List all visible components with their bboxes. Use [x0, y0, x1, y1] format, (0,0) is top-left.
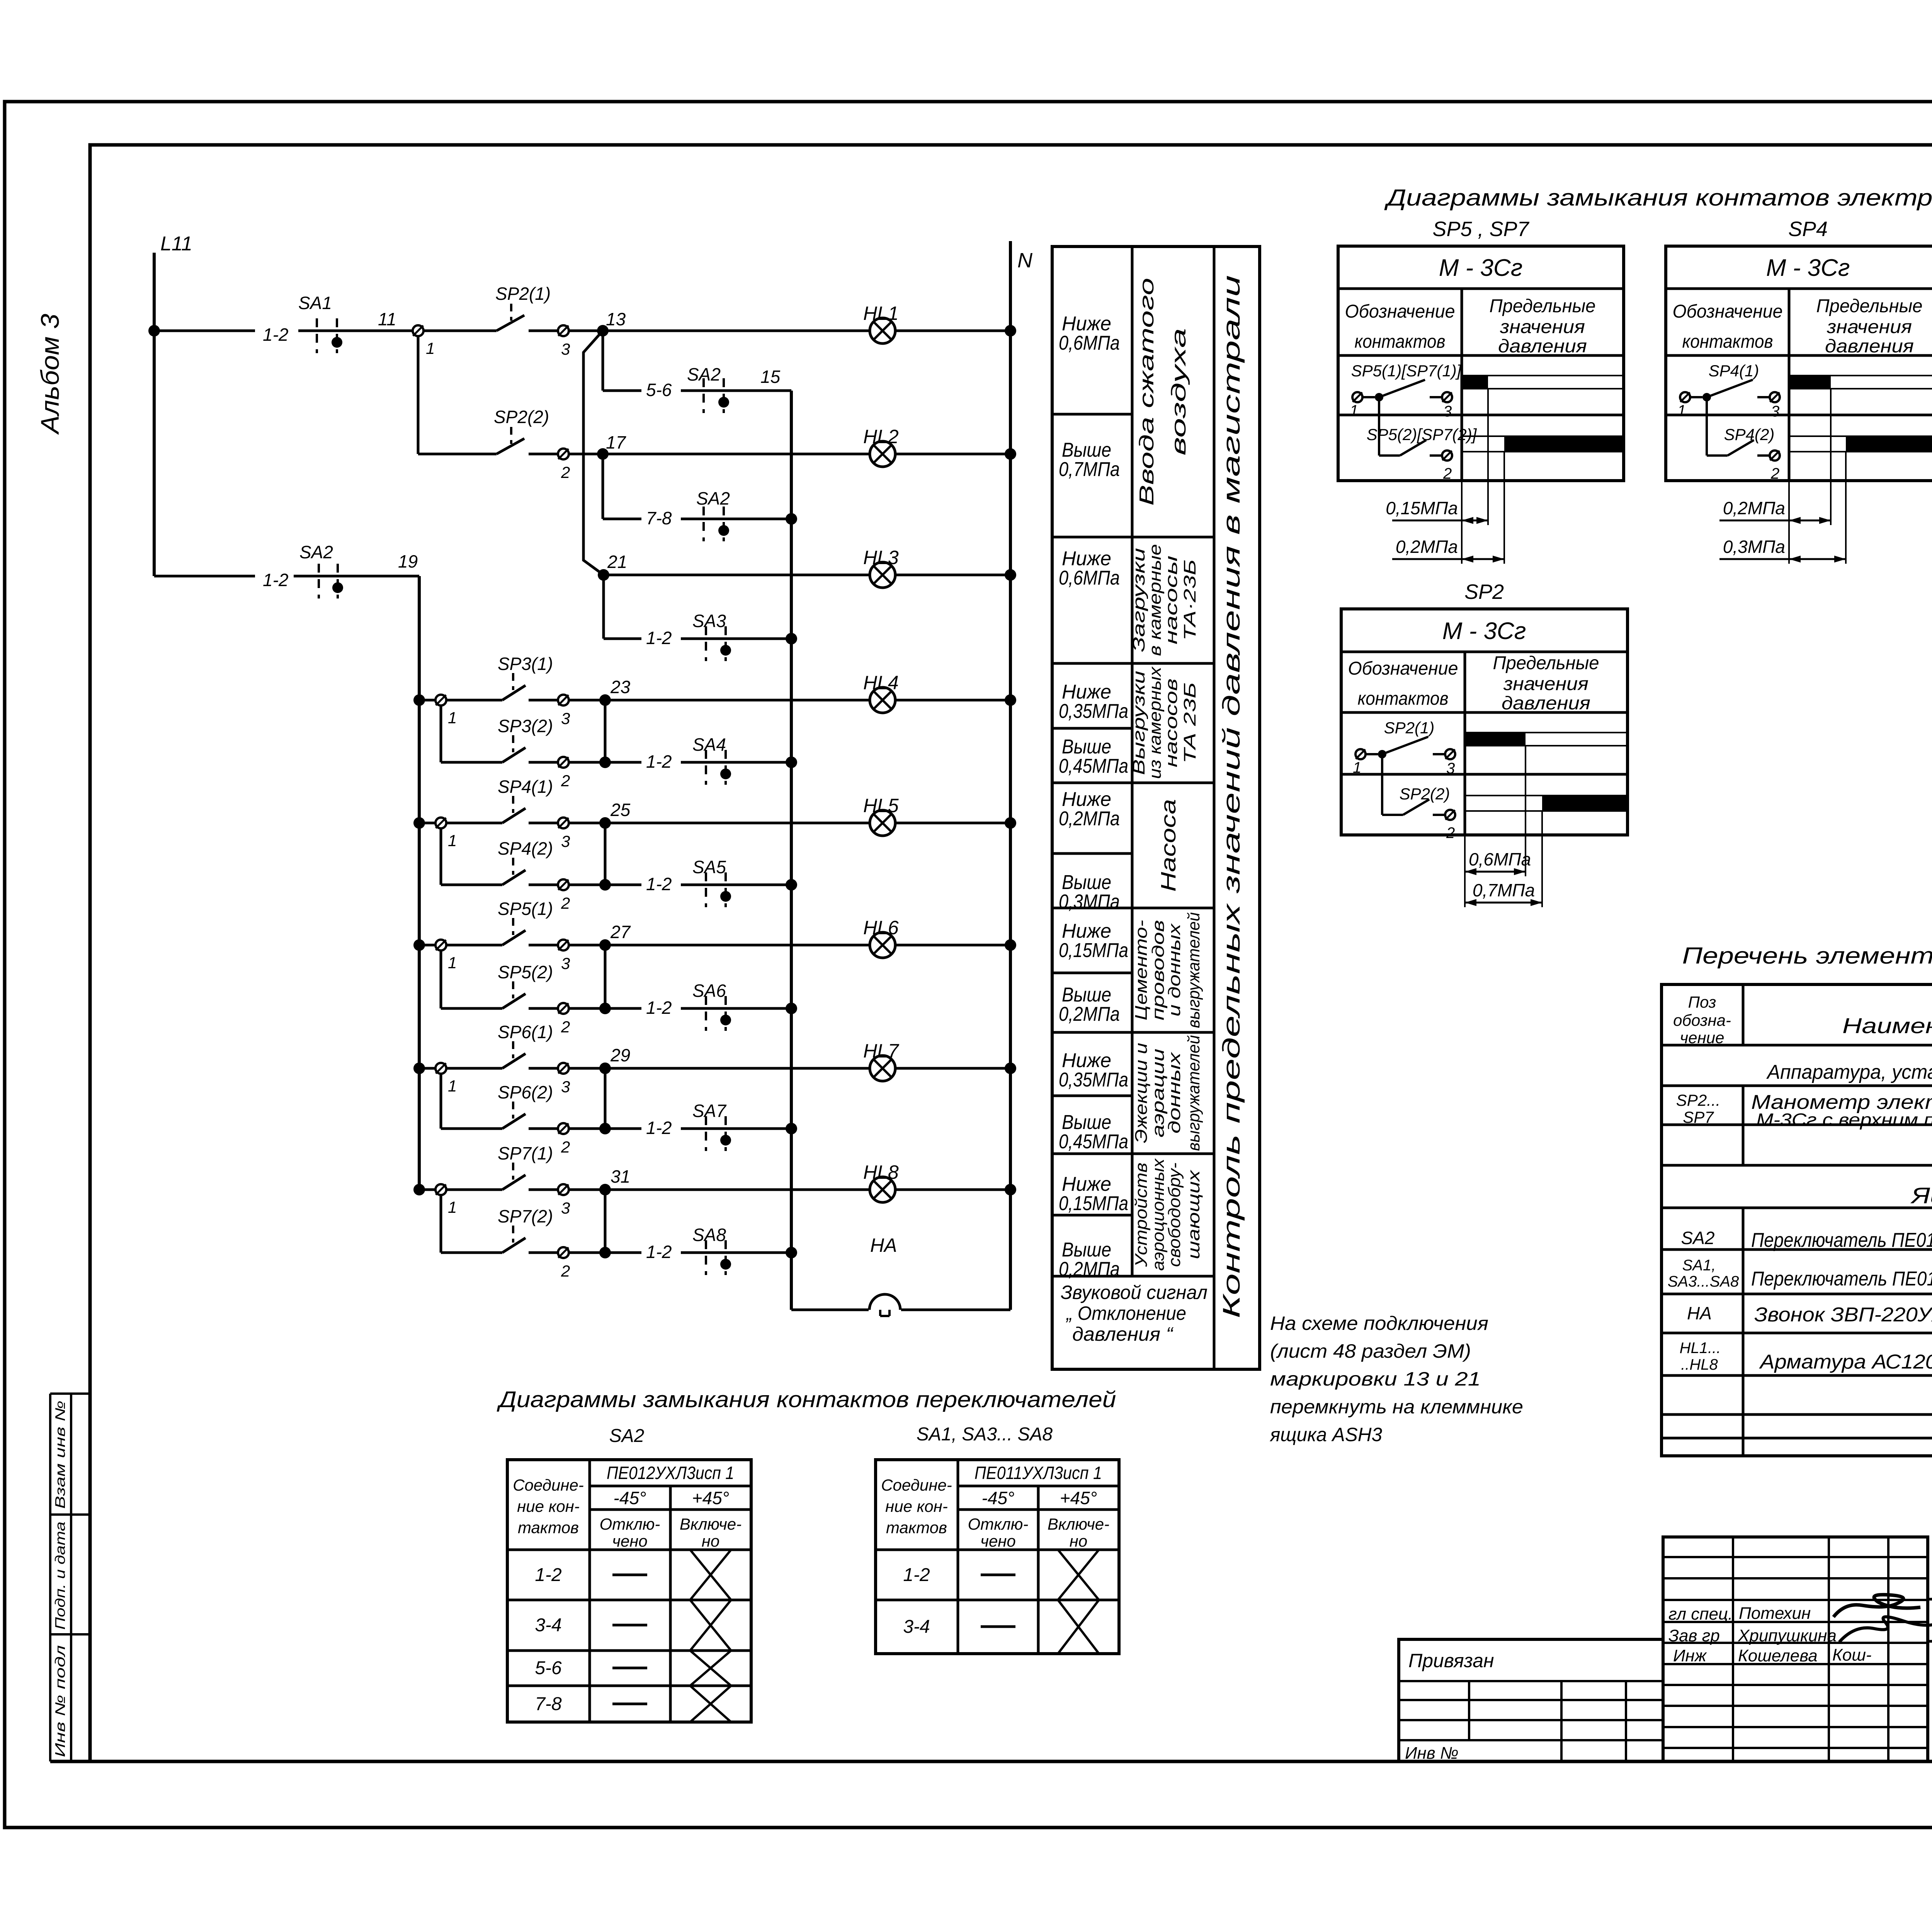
terminal 2 of SP3: [558, 757, 570, 790]
lamp HL5: [863, 795, 899, 836]
manometer table SP5/SP7: caption: [1432, 218, 1529, 241]
svg-text:SP7(2): SP7(2): [498, 1206, 553, 1226]
svg-text:Обозначение: Обозначение: [1673, 301, 1783, 322]
wire HL3 to N: [895, 569, 1016, 581]
switch table SA1/SA3-SA8: header -45 +45: [982, 1488, 1097, 1508]
terminal 3 of SP5: [558, 940, 570, 972]
pressure contact SP7(1): [446, 1143, 558, 1190]
side box Взам инв №: [50, 1394, 90, 1515]
svg-text:1-2: 1-2: [646, 1242, 672, 1262]
svg-text:3: 3: [1443, 403, 1452, 420]
manometer table SP5/SP7: contact SP5(1)[SP7(1)]: [1350, 362, 1462, 420]
node 21 junction: [598, 552, 627, 581]
pressure contact SP4(1): [446, 777, 558, 823]
svg-text:свободобру-: свободобру-: [1165, 1163, 1184, 1267]
manometer table SP4: header М-3Сг: [1766, 255, 1850, 281]
svg-text:2: 2: [1770, 465, 1779, 482]
manometer table SP2: header Предельные значения давления: [1493, 653, 1599, 714]
manometer table SP4: header Предельные значения давления: [1816, 296, 1923, 357]
svg-text:0,15МПа: 0,15МПа: [1059, 1192, 1128, 1215]
svg-text:М - 3Сг: М - 3Сг: [1439, 255, 1523, 281]
lamp HL3: [863, 547, 899, 588]
label 1-2 of SA5: [646, 874, 672, 894]
pressure contact SP7(2): [498, 1206, 558, 1253]
svg-text:SP4(1): SP4(1): [1709, 362, 1759, 380]
pressure cell A11: Выше 0,45МПа: [1059, 1111, 1128, 1153]
svg-text:0,6МПа: 0,6МПа: [1059, 332, 1120, 354]
terminal 2 of SP5: [558, 1003, 570, 1036]
svg-text:SA7: SA7: [692, 1101, 726, 1121]
svg-text:2: 2: [561, 772, 570, 790]
svg-text:2: 2: [561, 1138, 570, 1156]
manometer table SP2: contact SP2(2): [1382, 754, 1455, 842]
switch table SA1/SA3-SA8: header ПЕ011УХЛ3исп 1: [975, 1463, 1102, 1483]
switch table SA2: header ПЕ012УХЛ3исп 1: [607, 1463, 734, 1483]
title block: Привязан box: [1399, 1639, 1663, 1761]
manometer table SP5/SP7: threshold ticks: [1462, 389, 1504, 564]
svg-text:тактов: тактов: [518, 1518, 579, 1537]
terminal 1 of SP5: [419, 940, 457, 972]
svg-text:НА: НА: [1687, 1303, 1712, 1323]
terminal 3 of SP2: [558, 325, 570, 358]
junction feeder to SP6(1): [413, 1063, 425, 1074]
svg-text:1-2: 1-2: [903, 1565, 930, 1585]
svg-text:-45°: -45°: [614, 1488, 646, 1508]
wire L11 to SA2 row 1-2 (feeder 19): [154, 575, 255, 578]
terminal 1 of SP3: [419, 695, 457, 727]
bus L11: [154, 233, 192, 576]
caption SA1, SA3...SA8: [917, 1424, 1053, 1445]
manometer table SP5/SP7: closure band contact 2: [1462, 436, 1624, 452]
svg-text:ТА·23Б: ТА·23Б: [1180, 559, 1199, 641]
svg-text:SA1, SA3... SA8: SA1, SA3... SA8: [917, 1424, 1053, 1445]
svg-text:ние кон-: ние кон-: [517, 1497, 580, 1515]
switch SA1 contacts 1-2: [298, 293, 342, 353]
svg-text:гл спец.: гл спец.: [1668, 1605, 1733, 1624]
svg-text:маркировки 13 и 21: маркировки 13 и 21: [1270, 1368, 1481, 1390]
svg-text:1-2: 1-2: [646, 874, 672, 894]
label 1-2 of SA4: [646, 751, 672, 772]
svg-text:SA3...SA8: SA3...SA8: [1668, 1273, 1739, 1290]
pressure table function cell: Загрузки в камерные насосы: [1129, 544, 1199, 656]
junction SA3 row to collector: [786, 633, 797, 644]
terminal 3 of SP7: [558, 1184, 570, 1217]
node 31: [599, 1166, 630, 1195]
svg-text:Обозначение: Обозначение: [1348, 658, 1458, 679]
wire node 25 to lamp HL5: [569, 822, 870, 825]
wire node 21 to SA3 row: [604, 575, 641, 639]
svg-text:31: 31: [611, 1166, 630, 1187]
lamp HL2: [863, 426, 899, 467]
label 15: [760, 367, 781, 387]
wire node 27 to SA6 row: [605, 1007, 641, 1010]
manometer table SP2: dimension 0,7МПа: [1465, 880, 1542, 906]
svg-text:Обозначение: Обозначение: [1345, 301, 1455, 322]
svg-text:Подп. и дата: Подп. и дата: [52, 1522, 68, 1630]
manometer table SP4: closure band contact 1: [1789, 375, 1932, 389]
svg-text:SP5(2): SP5(2): [498, 962, 553, 982]
svg-text:2: 2: [561, 1018, 570, 1036]
terminal 2 of SP7: [558, 1247, 570, 1280]
manometer table SP4: threshold ticks: [1789, 389, 1846, 564]
svg-text:SA6: SA6: [692, 981, 726, 1001]
svg-text:контактов: контактов: [1355, 332, 1446, 352]
svg-text:27: 27: [610, 922, 631, 942]
svg-text:3: 3: [561, 1199, 570, 1217]
svg-text:SP2...: SP2...: [1676, 1091, 1720, 1109]
svg-text:SA8: SA8: [692, 1225, 726, 1245]
junction SA4 row to collector: [786, 757, 797, 768]
svg-text:3-4: 3-4: [903, 1617, 930, 1637]
svg-text:SP4: SP4: [1788, 218, 1828, 241]
manometer table SP2: frame: [1341, 609, 1628, 835]
svg-text:но: но: [1070, 1532, 1087, 1550]
wire node 27 to lamp HL6: [569, 944, 870, 947]
svg-text:На схеме подключения: На схеме подключения: [1270, 1312, 1488, 1334]
svg-text:1: 1: [1353, 759, 1361, 776]
element table section: Аппаратура, устанавливаемая по месту: [1766, 1061, 1932, 1083]
label 1-2 of SA3: [646, 628, 672, 648]
lamp HL6: [863, 917, 899, 958]
signature row Инж Кошелева Кош-: [1673, 1646, 1872, 1665]
svg-text:SP6(2): SP6(2): [498, 1082, 553, 1102]
junction SA6 row to collector: [786, 1003, 797, 1014]
svg-text:1: 1: [426, 339, 435, 357]
svg-text:значения: значения: [1827, 317, 1912, 337]
svg-text:SP5(1): SP5(1): [498, 899, 553, 919]
label 1-2 of SA8: [646, 1242, 672, 1262]
svg-text:и донных: и донных: [1165, 923, 1184, 1017]
title block: main frame lines: [1928, 1537, 1932, 1761]
element row HL1...HL8 арматура: [1680, 1340, 1932, 1373]
svg-text:Предельные: Предельные: [1493, 653, 1599, 673]
node 27: [599, 922, 631, 951]
lamp HL8: [863, 1161, 899, 1202]
manometer table SP2: contact SP2(1): [1353, 719, 1455, 777]
pressure table function cell: Ввода сжатого воздуха: [1136, 278, 1190, 506]
switch SA2 contacts 7-8: [681, 488, 791, 541]
svg-text:Аппаратура, устанавливаемая: Аппаратура, устанавливаемая по месту: [1766, 1061, 1932, 1083]
manometer table SP5/SP7: dimension 0,2МПа: [1392, 537, 1504, 563]
terminal 2 of SP2: [558, 449, 570, 481]
svg-text:1: 1: [448, 1198, 457, 1216]
svg-text:..HL8: ..HL8: [1681, 1356, 1718, 1373]
label 1-2 of SA6: [646, 998, 672, 1018]
svg-text:HL8: HL8: [863, 1161, 899, 1183]
svg-text:Поз: Поз: [1688, 993, 1716, 1011]
svg-text:ПЕ012УХЛ3исп 1: ПЕ012УХЛ3исп 1: [607, 1463, 734, 1483]
manometer table SP4: header Обозначение контактов: [1673, 301, 1783, 352]
junction 7-8 row to collector: [786, 513, 797, 525]
pressure table function cell: Выгрузки из камерных насосов: [1129, 666, 1199, 779]
svg-text:Арматура АС12013У2 , ~220В: Арматура АС12013У2 , ~220В: [1759, 1351, 1932, 1373]
switch table SA2: header Отключено Включено: [600, 1515, 742, 1550]
svg-text:3: 3: [561, 832, 570, 850]
terminal 3 of SP3: [558, 695, 570, 728]
svg-text:15: 15: [760, 367, 781, 387]
svg-text:23: 23: [610, 677, 631, 697]
svg-text:Соедине-: Соедине-: [513, 1476, 584, 1494]
bell HA: [869, 1234, 900, 1316]
pressure cell A1: Ниже 0,6МПа: [1059, 313, 1120, 354]
node 23: [599, 677, 631, 706]
svg-text:HL7: HL7: [863, 1040, 900, 1062]
svg-text:SP5 , SP7: SP5 , SP7: [1432, 218, 1529, 241]
element row HA звонок: [1687, 1302, 1932, 1326]
caption SA2: [609, 1426, 645, 1446]
svg-text:Потехин: Потехин: [1739, 1604, 1811, 1623]
node 29: [599, 1045, 630, 1074]
svg-text:3-4: 3-4: [535, 1615, 561, 1635]
svg-text:Кош-: Кош-: [1832, 1646, 1872, 1664]
svg-text:насосов: насосов: [1162, 678, 1181, 767]
svg-text:Контроль предельных значений: Контроль предельных значений давления в …: [1218, 275, 1245, 1318]
svg-text:SP3(1): SP3(1): [498, 654, 553, 674]
label 1-2 of SA7: [646, 1118, 672, 1138]
pressure contact SP5(2): [498, 962, 558, 1008]
svg-text:Инж: Инж: [1673, 1646, 1707, 1665]
side box Подп. и дата: [50, 1515, 90, 1634]
element table frame: [1662, 984, 1932, 1456]
wire HL2 to N: [895, 448, 1016, 460]
wire node 17 to SA2 7-8 row: [603, 454, 641, 519]
svg-text:HL4: HL4: [863, 672, 899, 694]
svg-text:выгружателей: выгружателей: [1184, 1035, 1203, 1151]
manometer table SP4: contact SP4(1): [1677, 362, 1780, 420]
title: Диаграммы замыкания контактов переключателей: [497, 1387, 1116, 1412]
junction feeder to SP5(1): [413, 939, 425, 951]
svg-text:давления: давления: [1825, 336, 1914, 357]
element row SA2 переключатель: [1681, 1227, 1932, 1251]
svg-text:13: 13: [606, 309, 626, 329]
svg-text:Диаграммы замыкания контатов: Диаграммы замыкания контатов электроконт…: [1384, 185, 1932, 211]
switch SA6 contacts 1-2: [681, 981, 791, 1031]
svg-text:Соедине-: Соедине-: [881, 1476, 952, 1494]
junction SA8 row to collector: [786, 1247, 797, 1258]
pressure cell A12: Ниже 0,15МПа: [1059, 1173, 1128, 1215]
node vertical 31 to SP7(2): [569, 1190, 611, 1258]
bell row wire: [791, 1309, 1010, 1311]
label 1-2 of SA2: [263, 570, 288, 590]
switch table SA2: header -45 +45: [614, 1488, 730, 1508]
svg-text:1-2: 1-2: [535, 1565, 561, 1585]
bus N: [1010, 241, 1033, 1310]
pressure cell A9: Выше 0,2МПа: [1059, 984, 1120, 1025]
manometer table SP2: caption: [1464, 580, 1504, 604]
svg-text:SP3(2): SP3(2): [498, 716, 553, 736]
svg-text:но: но: [702, 1532, 719, 1550]
svg-text:3: 3: [561, 1078, 570, 1096]
wire L11 to SA1 row 1-2: [148, 325, 255, 337]
svg-text:Ящик АSH3: Ящик АSH3: [1910, 1183, 1932, 1208]
svg-text:HL5: HL5: [863, 795, 899, 816]
svg-text:1: 1: [448, 1077, 457, 1095]
svg-text:+45°: +45°: [1060, 1488, 1097, 1508]
manometer table SP5/SP7: dimension 0,15МПа: [1386, 498, 1488, 524]
svg-text:давления: давления: [1502, 693, 1590, 714]
svg-text:5-6: 5-6: [535, 1658, 562, 1678]
svg-text:ТА 23Б: ТА 23Б: [1180, 682, 1199, 763]
switch table SA1/SA3-SA8: header Соединение контактов: [881, 1476, 952, 1537]
pressure contact SP5(1): [446, 899, 558, 945]
switch SA8 contacts 1-2: [681, 1225, 791, 1275]
element row SA1, SA3...SA8 переключатель: [1668, 1257, 1932, 1290]
svg-text:SP2: SP2: [1464, 580, 1504, 604]
svg-text:1-2: 1-2: [646, 998, 672, 1018]
node vertical 25 to SP4(2): [569, 823, 611, 891]
branch SP2(2) from terminal 1: [418, 336, 497, 454]
svg-text:давления “: давления “: [1072, 1323, 1173, 1345]
terminal 2 of SP4: [558, 879, 570, 912]
svg-text:SA2: SA2: [299, 542, 333, 562]
svg-text:Отклю-: Отклю-: [600, 1515, 660, 1533]
svg-text:0,7МПа: 0,7МПа: [1473, 880, 1535, 900]
svg-text:SP5(1)[SP7(1)]: SP5(1)[SP7(1)]: [1351, 362, 1462, 380]
svg-text:Насоса: Насоса: [1157, 799, 1180, 892]
svg-text:Включе-: Включе-: [1048, 1515, 1109, 1533]
wire node 21 to lamp HL3: [604, 574, 870, 576]
svg-text:обозна-: обозна-: [1673, 1011, 1731, 1029]
svg-text:21: 21: [607, 552, 627, 572]
pressure table function cell: Насоса: [1157, 799, 1180, 892]
svg-text:HA: HA: [870, 1234, 897, 1256]
wire node 31 to lamp HL8: [569, 1188, 870, 1191]
wire node 29 to SA7 row: [605, 1127, 641, 1130]
svg-text:тактов: тактов: [886, 1518, 947, 1537]
svg-text:значения: значения: [1503, 674, 1588, 694]
manometer table SP2: header М-3Сг: [1442, 618, 1526, 644]
wire node 23 to lamp HL4: [569, 699, 870, 702]
svg-text:0,3МПа: 0,3МПа: [1059, 891, 1120, 913]
svg-text:3: 3: [561, 709, 570, 728]
switch table SA1/SA3-SA8: header Отключено Включено: [968, 1515, 1110, 1550]
title block: revision/signature grid: [1663, 1537, 1928, 1761]
wire HL1 to N: [895, 325, 1016, 337]
label 1-2 of SA1: [263, 325, 288, 345]
manometer table SP5/SP7: header Обозначение контактов: [1345, 301, 1455, 352]
label Инв №: [1405, 1744, 1459, 1763]
manometer table SP2: header Обозначение контактов: [1348, 658, 1458, 709]
svg-text:5-6: 5-6: [646, 380, 672, 400]
svg-text:Инв №: Инв №: [1405, 1744, 1459, 1763]
svg-text:чено: чено: [612, 1532, 648, 1550]
collector vertical to bell: [790, 391, 793, 1310]
svg-text:Перечень элементов принципиа: Перечень элементов принципиальной схемы: [1682, 943, 1932, 969]
pressure cell A3: Ниже 0,6МПа: [1059, 547, 1120, 589]
svg-text:SP5(2)[SP7(2)]: SP5(2)[SP7(2)]: [1367, 425, 1477, 444]
junction feeder to SP4(1): [413, 817, 425, 829]
manometer table SP2: dimension 0,6МПа: [1465, 849, 1531, 875]
svg-text:Кошелева: Кошелева: [1738, 1646, 1818, 1665]
terminal 1 of SP6: [419, 1063, 457, 1095]
svg-text:0,2МПа: 0,2МПа: [1059, 1003, 1120, 1025]
wire node 31 to SA8 row: [605, 1251, 641, 1254]
label 7-8: [646, 508, 672, 528]
svg-text:Эжекции и: Эжекции и: [1132, 1043, 1151, 1143]
svg-text:SP2(1): SP2(1): [495, 284, 551, 304]
svg-text:чено: чено: [980, 1532, 1016, 1550]
svg-text:Альбом 3: Альбом 3: [36, 314, 64, 435]
branch SP7(2) from terminal 1: [441, 1195, 502, 1253]
svg-text:1: 1: [448, 709, 457, 727]
svg-text:SP2(1): SP2(1): [1384, 719, 1435, 737]
manometer table SP4: contact SP4(2): [1707, 397, 1780, 482]
svg-text:0,2МПа: 0,2МПа: [1723, 498, 1785, 518]
svg-text:Зав гр: Зав гр: [1668, 1626, 1720, 1645]
svg-text:SA2: SA2: [609, 1426, 645, 1446]
element table section: Ящик АSH3: [1910, 1183, 1932, 1208]
svg-text:2: 2: [561, 463, 570, 481]
switch table SA2: header Соединение контактов: [513, 1476, 584, 1537]
svg-text:Устройств: Устройств: [1132, 1163, 1151, 1267]
svg-text:контактов: контактов: [1358, 689, 1449, 709]
branch SP3(2) from terminal 1: [441, 706, 502, 762]
svg-text:0,15МПа: 0,15МПа: [1059, 939, 1128, 962]
terminal 1 of SP4: [419, 818, 457, 850]
element table header Поз обозначение: [1673, 993, 1731, 1047]
manometer table SP4: dimension 0,3МПа: [1719, 537, 1846, 563]
svg-text:0,6МПа: 0,6МПа: [1059, 567, 1120, 589]
signature row гл спец. Потехин: [1668, 1595, 1920, 1624]
switch SA4 contacts 1-2: [681, 734, 791, 785]
svg-text:0,6МПа: 0,6МПа: [1469, 849, 1531, 869]
pressure contact SP3(1): [446, 654, 558, 700]
switch table SA2: row 1-2: [535, 1550, 731, 1600]
terminal 1 of SP2: [413, 325, 435, 357]
svg-text:1-2: 1-2: [263, 570, 288, 590]
terminal 3 of SP6: [558, 1063, 570, 1096]
svg-text:М - 3Сг: М - 3Сг: [1442, 618, 1526, 644]
terminal 1 of SP7: [419, 1184, 457, 1216]
node vertical 23 to SP3(2): [569, 700, 611, 768]
pressure contact SP4(2): [498, 838, 558, 885]
title: Перечень элементов принципиальной схемы: [1682, 943, 1932, 969]
svg-text:SA1,: SA1,: [1682, 1257, 1716, 1274]
svg-text:SP4(2): SP4(2): [1724, 425, 1775, 444]
svg-text:SP2(2): SP2(2): [494, 407, 549, 427]
manometer table SP4: caption: [1788, 218, 1828, 241]
pressure contact SP6(2): [498, 1082, 558, 1129]
svg-text:0,35МПа: 0,35МПа: [1059, 1069, 1128, 1091]
svg-text:Цементо-: Цементо-: [1132, 920, 1151, 1020]
wire HL5 to N: [895, 817, 1016, 829]
manometer table SP4: closure band contact 2: [1789, 436, 1932, 452]
svg-text:Диаграммы замыкания контакто: Диаграммы замыкания контактов переключат…: [497, 1387, 1116, 1412]
pressure cell A5: Выше 0,45МПа: [1059, 736, 1128, 777]
pressure cell A10: Ниже 0,35МПа: [1059, 1049, 1128, 1091]
svg-text:0,2МПа: 0,2МПа: [1059, 1258, 1120, 1280]
node 17: [569, 432, 870, 460]
svg-text:Хрипушкина: Хрипушкина: [1738, 1626, 1837, 1645]
pressure cell A2: Выше 0,7МПа: [1059, 439, 1120, 481]
pressure table function cell: Эжекции и аэрации: [1132, 1035, 1203, 1151]
svg-text:17: 17: [606, 432, 626, 452]
lamp HL4: [863, 672, 899, 713]
svg-text:7-8: 7-8: [646, 508, 672, 528]
svg-text:SP4(1): SP4(1): [498, 777, 553, 797]
svg-text:1-2: 1-2: [646, 628, 672, 648]
pressure cell A8: Ниже 0,15МПа: [1059, 920, 1128, 962]
svg-text:0,15МПа: 0,15МПа: [1386, 498, 1458, 518]
svg-text:значения: значения: [1500, 317, 1585, 337]
svg-text:N: N: [1017, 249, 1033, 272]
svg-text:3: 3: [561, 954, 570, 972]
switch table SA2: row 5-6: [535, 1651, 731, 1686]
switch table SA1/SA3-SA8: row 3-4: [903, 1600, 1099, 1654]
pressure cell A4: Ниже 0,35МПа: [1059, 681, 1128, 723]
manometer table SP5/SP7: header Предельные значения давления: [1490, 296, 1596, 357]
svg-text:SP6(1): SP6(1): [498, 1022, 553, 1042]
